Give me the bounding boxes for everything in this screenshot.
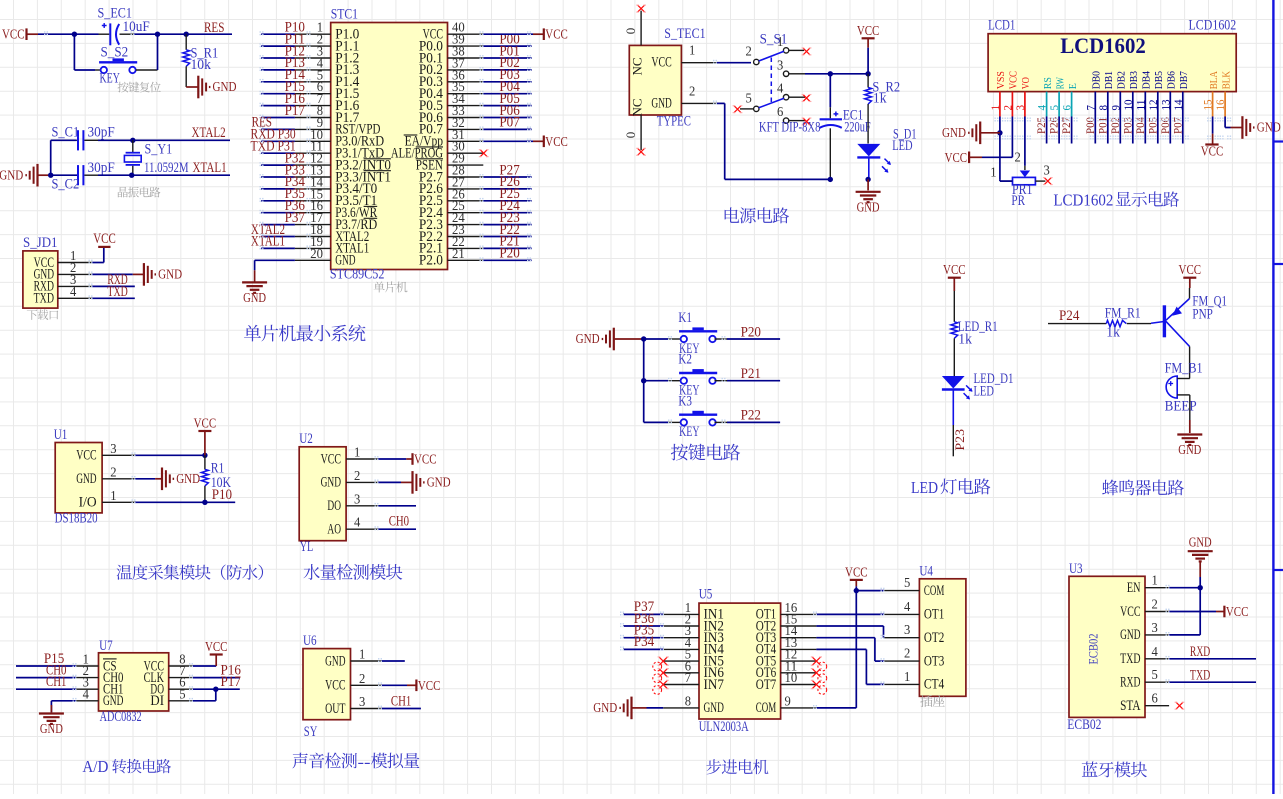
svg-text:5: 5	[746, 91, 753, 106]
svg-text:DB0: DB0	[1091, 71, 1103, 90]
switch S_S1 blade 5-4	[759, 98, 784, 108]
svg-text:LED: LED	[974, 384, 994, 400]
wire U5 pin4	[623, 648, 663, 650]
pin 40 STC1 (VCC)	[423, 20, 484, 43]
svg-text:GND: GND	[0, 168, 23, 183]
pin 1 U7	[76, 652, 99, 667]
junction J1	[202, 453, 207, 458]
svg-text:VCC: VCC	[1120, 604, 1140, 620]
net label P37	[285, 210, 305, 226]
wire STC1 pin 14	[261, 188, 295, 190]
net label P15	[285, 79, 305, 95]
junction E1	[828, 71, 833, 76]
wire LCD pin2 to VCC	[982, 117, 1012, 158]
pin 38 STC1 (P0.1)	[419, 44, 483, 67]
pin 4 S_JD1	[58, 284, 92, 299]
svg-text:220uF: 220uF	[844, 120, 871, 136]
net label P14	[285, 67, 306, 83]
net label P26 (LCD)	[1049, 117, 1061, 134]
wire C2 to XTAL1	[98, 174, 230, 176]
junction L1	[213, 687, 218, 692]
wire U6 out	[382, 708, 421, 710]
svg-text:4: 4	[83, 686, 90, 701]
pin 9 STC1 (RST/VPD)	[295, 115, 381, 138]
svg-text:DO: DO	[327, 498, 341, 514]
net label P01	[499, 43, 519, 59]
svg-text:LCD1: LCD1	[988, 18, 1015, 34]
svg-text:DB5: DB5	[1153, 71, 1165, 90]
wire JD1 pin4	[92, 297, 135, 299]
svg-text:S_JD1: S_JD1	[23, 235, 58, 251]
net label P15 (U7)	[44, 651, 64, 667]
crystal S_Y1	[124, 140, 188, 176]
wire STC1 pin 37	[483, 69, 531, 71]
wire U7 pin5	[193, 689, 216, 701]
wire K1 left	[644, 338, 681, 340]
wire gnd rail to pin3	[1169, 588, 1200, 635]
net label P07	[499, 115, 519, 131]
svg-text:NC: NC	[630, 98, 645, 116]
pin 12 LCD1 (DB5)	[1146, 71, 1165, 117]
svg-text:VCC: VCC	[1179, 263, 1202, 278]
pin 21 STC1 (P2.0)	[419, 246, 483, 269]
svg-text:GND: GND	[213, 80, 237, 95]
no-ERC marker U5 pin10	[811, 680, 822, 688]
net label P20	[741, 324, 761, 340]
pin 12 U5 (OT5)	[756, 647, 817, 670]
pin 3 U5 (IN3)	[663, 623, 724, 646]
wire gnd up to C1	[51, 140, 77, 175]
pin 5 U3 (RXD)	[1120, 667, 1169, 690]
pin 15 U5 (OT2)	[756, 612, 817, 635]
pin 5 LCD1 (RW)	[1047, 77, 1066, 117]
svg-text:1: 1	[689, 43, 695, 58]
svg-text:RXD: RXD	[1120, 675, 1140, 691]
svg-text:ECB02: ECB02	[1085, 634, 1100, 665]
caption 声音检测--模拟量	[292, 752, 419, 771]
svg-text:AO: AO	[327, 522, 341, 538]
switch S_S2	[95, 45, 158, 87]
wire U5 pin2	[623, 625, 663, 627]
junction O1	[1198, 585, 1203, 590]
svg-text:14: 14	[1171, 100, 1185, 111]
net label CH1 (U6)	[391, 694, 411, 710]
net label P00 (LCD)	[1085, 117, 1097, 134]
net label P21	[499, 234, 519, 250]
wire GND stem	[1199, 561, 1201, 587]
junction E4	[865, 177, 870, 182]
wire U5 pin3	[623, 637, 663, 639]
pin 1 U4 (CT4)	[884, 669, 945, 693]
pin 1 U1	[102, 488, 135, 503]
wire LCD pin 8	[1107, 117, 1109, 144]
net label P22	[741, 408, 761, 424]
no-ERC circle U5 pin11	[818, 674, 827, 683]
pin 5 U5 (IN5)	[663, 647, 724, 670]
svg-text:VSS: VSS	[995, 71, 1007, 89]
wire STC1 pin 7	[261, 105, 295, 107]
pin 5 U7	[169, 686, 193, 701]
wire STC1 pin 5	[261, 81, 295, 83]
net label P17 (U7)	[221, 674, 241, 690]
resistor R1	[202, 455, 232, 502]
wire LCD pin 6	[1071, 117, 1073, 144]
pin 3 LCD1 (VO)	[1013, 77, 1032, 116]
svg-text:9: 9	[785, 693, 792, 708]
pin 14 LCD1 (DB7)	[1171, 71, 1190, 117]
pin 4 U4 (OT1)	[884, 599, 944, 623]
svg-text:GND: GND	[1189, 536, 1212, 551]
wire LCD pin 4	[1046, 117, 1048, 144]
caption LED灯电路	[911, 478, 990, 497]
svg-text:VCC: VCC	[651, 55, 671, 71]
pin 3 U4 (OT2)	[884, 622, 944, 646]
net label P37	[634, 599, 654, 615]
svg-text:P37: P37	[285, 210, 305, 226]
svg-text:5: 5	[179, 686, 186, 701]
net label P35	[634, 623, 654, 639]
pin 16 U5 (OT1)	[756, 600, 817, 623]
pin 5 U4 (COM)	[884, 575, 944, 599]
resistor LED_R1	[951, 291, 998, 376]
pin 13 LCD1 (DB6)	[1158, 71, 1177, 117]
wire LCD pin 12	[1157, 117, 1159, 144]
power port VCC (LCD)	[945, 151, 982, 166]
ground GND (U3)	[1188, 536, 1213, 562]
wire STC1 pin 12	[261, 164, 295, 166]
caption 蜂鸣器电路	[1102, 480, 1184, 496]
pin 33 STC1 (P0.6)	[419, 103, 483, 126]
svg-text:U4: U4	[919, 564, 933, 580]
svg-text:S_S2: S_S2	[101, 45, 129, 61]
svg-text:4: 4	[1152, 644, 1159, 659]
wire LCD pin 5	[1058, 117, 1060, 144]
pin 1 U2	[346, 445, 378, 460]
resistor S_R1	[183, 34, 218, 87]
svg-text:5: 5	[904, 575, 911, 590]
svg-text:3: 3	[1013, 105, 1027, 111]
svg-text:RES: RES	[204, 20, 224, 36]
net label XTAL2 (STC1)	[251, 222, 285, 238]
pin 3 S_JD1	[58, 272, 92, 287]
svg-text:LCD1602: LCD1602	[1189, 18, 1237, 34]
pin 3 U7	[76, 675, 99, 690]
svg-text:3: 3	[110, 441, 117, 456]
wire U5 pin1	[623, 613, 663, 615]
pin 3 U2	[346, 491, 378, 506]
svg-text:GND: GND	[76, 471, 96, 487]
pin 3 U6	[351, 694, 382, 709]
connector S_JD1	[23, 235, 58, 308]
net label P16	[285, 91, 305, 107]
pin 8 LCD1 (DB1)	[1096, 71, 1115, 117]
socket U4 body	[919, 564, 966, 697]
svg-text:10uF: 10uF	[123, 19, 150, 35]
pin 16 STC1 (P3.6/WR)	[295, 198, 378, 221]
svg-text:VCC: VCC	[76, 448, 96, 464]
svg-text:K3: K3	[678, 393, 692, 409]
ground GND (crystal)	[0, 164, 51, 187]
pin 4 U3 (TXD)	[1120, 644, 1169, 667]
svg-text:3: 3	[354, 491, 361, 506]
junction J2	[202, 500, 207, 505]
net label P24	[1059, 308, 1080, 324]
wire LCD pin16 to GND	[1225, 117, 1242, 128]
wire STC1 pin 16	[261, 212, 295, 214]
svg-text:STA: STA	[1120, 698, 1141, 714]
svg-text:1: 1	[354, 445, 360, 460]
svg-text:4: 4	[904, 599, 911, 614]
pin 1 STC1 (P1.0)	[295, 20, 359, 43]
pin 9 U5 (COM)	[756, 693, 817, 716]
svg-text:OT7: OT7	[756, 677, 776, 693]
net label XTAL1 (STC1)	[251, 234, 285, 250]
pin 3 U1	[102, 441, 135, 456]
pin 10 STC1 (P3.0/RxD)	[295, 127, 384, 150]
svg-text:VO: VO	[1020, 77, 1032, 89]
power port VCC (U7)	[205, 640, 228, 666]
net label XTAL2	[192, 125, 226, 141]
svg-text:P34: P34	[634, 634, 655, 650]
pin 34 STC1 (P0.5)	[419, 91, 483, 114]
LED S_D1	[857, 127, 916, 180]
pin 13 U5 (OT4)	[756, 635, 817, 658]
power port VCC (pin40)	[544, 28, 568, 43]
net label RES (STC1)	[252, 115, 272, 131]
no-ERC marker S1 pin5	[733, 106, 743, 113]
wire LCD pin 11	[1144, 117, 1146, 144]
wire U7 pin2	[16, 677, 76, 679]
pin 5 STC1 (P1.4)	[295, 67, 360, 90]
wire STC1 pin 15	[261, 200, 295, 202]
pin 14 STC1 (P3.4/T0)	[295, 174, 377, 197]
wire FM_R1 to base	[1127, 322, 1164, 324]
wire LCD pin 10	[1132, 117, 1134, 144]
junction N1	[854, 588, 859, 593]
svg-text:3: 3	[1044, 163, 1051, 178]
pin 7 LCD1 (DB0)	[1083, 71, 1102, 117]
svg-text:SY: SY	[304, 724, 318, 740]
svg-text:GND: GND	[1120, 627, 1140, 643]
svg-text:P22: P22	[741, 408, 761, 424]
wire STC1 pin 23	[483, 236, 531, 238]
wire OT4 to U4	[816, 649, 884, 684]
power port VCC (LED)	[943, 263, 966, 291]
wire keys vertical	[643, 339, 645, 422]
svg-text:4: 4	[70, 284, 77, 299]
transistor FM_Q1	[1164, 294, 1227, 347]
wire STC1 pin 9	[261, 128, 295, 130]
junction A3	[184, 32, 189, 37]
svg-text:DS18B20: DS18B20	[55, 511, 98, 527]
svg-text:VCC: VCC	[545, 135, 568, 150]
pin 23 STC1 (P2.2)	[419, 222, 483, 245]
svg-text:P05: P05	[1147, 117, 1159, 134]
svg-text:6: 6	[777, 104, 784, 119]
junction G2	[641, 378, 646, 383]
switch K3	[678, 393, 717, 440]
value KFT DIP-8X8	[759, 120, 821, 136]
module U3 body	[1067, 561, 1145, 733]
svg-text:RW: RW	[1054, 77, 1066, 90]
net label P17	[285, 103, 305, 119]
pin 11 STC1 (P3.1/TxD)	[295, 139, 384, 162]
svg-text:GND: GND	[158, 268, 182, 283]
pin 9 LCD1 (DB2)	[1108, 71, 1127, 117]
pin 17 STC1 (P3.7/RD)	[295, 210, 377, 233]
pin 0 S_TEC1 bottom	[623, 115, 641, 150]
pin 8 STC1 (P1.7)	[295, 103, 359, 126]
pin 10 U5 (OT7)	[756, 670, 817, 693]
wire STC1 pin 17	[261, 224, 295, 226]
pin 32 STC1 (P0.7)	[419, 115, 483, 138]
pin 6 LCD1 (E)	[1060, 83, 1079, 117]
wire STC1 pin 26	[483, 200, 531, 202]
junction E2	[865, 71, 870, 76]
svg-text:GND: GND	[243, 291, 266, 306]
svg-text:YL: YL	[300, 539, 314, 555]
no-ERC marker U5 pin11	[811, 669, 822, 677]
net label P34	[634, 634, 655, 650]
caption 水量检测模块	[304, 564, 403, 580]
svg-text:COM: COM	[756, 700, 776, 716]
svg-text:6: 6	[1152, 691, 1159, 706]
wire U2 gnd	[378, 481, 412, 483]
pin 4 U7	[76, 686, 99, 701]
svg-text:EN: EN	[1127, 580, 1141, 596]
svg-text:STC89C52: STC89C52	[330, 267, 385, 283]
wire OT1 to U4	[816, 613, 884, 615]
pin 24 STC1 (P2.3)	[419, 210, 483, 233]
buzzer FM_B1	[1165, 361, 1203, 415]
svg-text:LED: LED	[911, 478, 938, 497]
pin 15 STC1 (P3.5/T1)	[295, 186, 377, 209]
svg-text:GND: GND	[103, 693, 123, 709]
net label P06	[499, 103, 519, 119]
junction E3	[828, 177, 833, 182]
sensor U1 body	[54, 427, 102, 527]
pin 15 LCD1 (BLA)	[1201, 71, 1220, 117]
svg-text:GND: GND	[576, 332, 600, 347]
wire STC1 pin 28	[483, 176, 531, 178]
pin 35 STC1 (P0.4)	[419, 79, 483, 102]
svg-text:3: 3	[1152, 620, 1159, 635]
svg-text:3: 3	[777, 58, 784, 73]
pin 2 S_TEC1	[681, 84, 716, 104]
sensor U2 body	[299, 431, 346, 555]
wire STC1 pin20 to GND	[255, 260, 295, 282]
wire STC1 pin 3	[261, 57, 295, 59]
svg-text:P2.0: P2.0	[419, 253, 443, 269]
junction F1	[997, 130, 1002, 135]
svg-text:1: 1	[359, 647, 365, 662]
pin 4 U2	[346, 515, 378, 530]
pin 6 STC1 (P1.5)	[295, 79, 359, 102]
svg-text:XTAL2: XTAL2	[192, 125, 226, 141]
svg-text:FM_B1: FM_B1	[1165, 361, 1203, 377]
net label TXD (JD1)	[107, 284, 127, 300]
wire U6 vcc	[382, 684, 417, 686]
wire STC1 pin 25	[483, 212, 531, 214]
svg-text:TXD: TXD	[34, 291, 54, 307]
ground GND (U7)	[39, 714, 64, 738]
wire U1 vcc	[135, 454, 205, 456]
svg-text:PR: PR	[1011, 193, 1025, 209]
net label P27	[499, 162, 519, 178]
net label P27 (LCD)	[1061, 117, 1073, 134]
no-ERC circle U5 pin6	[653, 674, 662, 683]
power port VCC (JD1)	[93, 231, 116, 247]
ground GND (STC1)	[242, 282, 267, 306]
svg-text:DB3: DB3	[1128, 71, 1140, 90]
wire STC1 pin 6	[261, 93, 295, 95]
caption 下载口	[27, 309, 58, 320]
pin 8 U5 (GND)	[663, 693, 724, 716]
power port VCC (U6)	[416, 679, 440, 694]
wire U7 pin8 vcc	[193, 665, 217, 667]
wire TEC1 pin2 gnd run	[717, 103, 831, 179]
wire STC1 pin 36	[483, 81, 531, 83]
wire U7 pin6	[193, 688, 240, 690]
svg-text:OUT: OUT	[325, 701, 345, 717]
pin 20 STC1 (GND)	[295, 246, 356, 269]
resistor FM_R1	[1105, 306, 1141, 341]
svg-text:A/D: A/D	[82, 757, 108, 776]
pin 30 STC1 (ALE/PROG)	[391, 139, 483, 162]
svg-text:VCC: VCC	[1201, 145, 1224, 160]
svg-text:7: 7	[685, 670, 692, 685]
switch K2	[678, 352, 717, 399]
power port VCC (U3)	[1224, 605, 1248, 620]
wire LCD pin 9	[1119, 117, 1121, 144]
net label P05	[499, 91, 519, 107]
svg-text:TXD P31: TXD P31	[251, 139, 296, 155]
svg-text:P07: P07	[499, 115, 519, 131]
wire STC1 pin 27	[483, 188, 531, 190]
caption 温度采集模块（防水）	[117, 564, 263, 579]
svg-text:10: 10	[785, 670, 798, 685]
svg-text:NC: NC	[630, 57, 645, 75]
pin 11 U5 (OT6)	[756, 658, 817, 681]
pin 1 U5 (IN1)	[663, 600, 724, 623]
pin 2 U3 (VCC)	[1120, 597, 1169, 620]
wire COM rail	[855, 591, 857, 708]
caption 步进电机	[706, 759, 768, 774]
svg-text:S_C2: S_C2	[52, 177, 80, 193]
svg-text:0: 0	[623, 28, 638, 35]
pin 8 U7	[169, 652, 193, 667]
svg-text:5: 5	[1152, 667, 1159, 682]
svg-text:S_TEC1: S_TEC1	[664, 26, 705, 42]
wire STC1 pin 33	[483, 117, 531, 119]
switch S_S1 pin4	[777, 81, 805, 100]
svg-text:P17: P17	[285, 103, 305, 119]
svg-text:S_C1: S_C1	[52, 125, 80, 141]
svg-text:OT3: OT3	[924, 653, 944, 669]
net label RXD (U3)	[1190, 644, 1210, 660]
wire STC1 pin 10	[261, 140, 295, 142]
ground GND (U2)	[413, 471, 451, 494]
wire STC1 pin 22	[483, 247, 531, 249]
svg-text:RS: RS	[1042, 77, 1054, 89]
wire U2 vcc	[378, 458, 412, 460]
pin 3 STC1 (P1.2)	[295, 44, 359, 67]
wire LCD pin3 to pot	[1024, 117, 1026, 171]
wire STC1 pin 35	[483, 93, 531, 95]
wire STC1 pin 4	[261, 69, 295, 71]
svg-text:CH1: CH1	[46, 674, 66, 690]
no-ERC circle U5 pin10	[818, 686, 827, 695]
